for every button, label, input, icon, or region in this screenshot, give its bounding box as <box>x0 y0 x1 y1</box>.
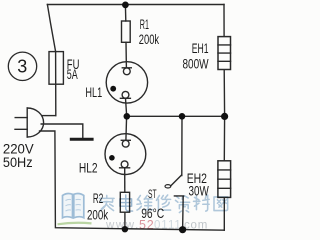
svg-text:EH1: EH1 <box>192 41 209 56</box>
svg-text:.com: .com <box>180 220 208 232</box>
svg-text:3: 3 <box>17 57 27 77</box>
svg-text:5A: 5A <box>67 67 78 82</box>
svg-text:01: 01 <box>154 220 168 232</box>
svg-text:HL1: HL1 <box>85 85 102 100</box>
svg-text:www.: www. <box>105 220 140 232</box>
svg-text:50Hz: 50Hz <box>3 155 33 170</box>
svg-text:800W: 800W <box>183 57 209 72</box>
svg-text:HL2: HL2 <box>79 161 98 176</box>
svg-text:200k: 200k <box>139 32 159 47</box>
svg-text:52: 52 <box>139 218 155 232</box>
svg-text:R1: R1 <box>140 17 149 32</box>
